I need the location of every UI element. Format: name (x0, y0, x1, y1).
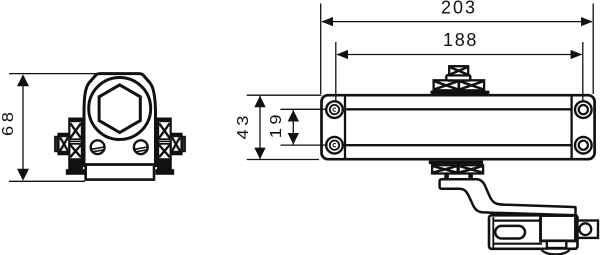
svg-text:19: 19 (267, 111, 284, 138)
bottom valve post left (444, 174, 449, 181)
dim 188 arrow right (571, 50, 583, 59)
dim 43 top extension (247, 94, 322, 96)
dim 68 dimension line (22, 76, 24, 179)
dim 19 arrow down (288, 133, 299, 144)
bottom valve post right (468, 174, 473, 181)
rail inner bottom line (493, 243, 542, 245)
dim 68 top extension line (9, 73, 100, 75)
dim 19 arrow up (288, 110, 299, 122)
screw bottom-left (326, 137, 343, 154)
dim 19 label (267, 111, 284, 138)
left valve cap (55, 137, 59, 152)
top valve X-box left (434, 80, 459, 90)
dim 19 bottom tick inside body (322, 144, 327, 146)
right bracket flange (156, 169, 175, 175)
left cap separator (344, 97, 346, 159)
body inner line lower (345, 144, 572, 146)
dim 68 arrow up (17, 74, 29, 86)
dim 188 label (443, 30, 478, 50)
top valve top X-box (449, 66, 468, 75)
pivot block (541, 216, 576, 241)
dim 43 dimension line (259, 96, 261, 159)
dim 19 top tick inside body (322, 108, 327, 110)
right screw (134, 140, 148, 154)
base plate (86, 165, 154, 180)
right bracket block (158, 119, 171, 170)
pivot dome (542, 249, 570, 255)
dim 203 dimension line (322, 21, 592, 23)
dim 19 dimension line (292, 110, 294, 145)
dim 203 arrow right (581, 17, 593, 26)
screw top-left (326, 101, 343, 118)
right cap separator (570, 97, 572, 159)
bottom valve X-box right (459, 165, 484, 173)
dim 188 left extension (335, 42, 337, 108)
left screw (91, 140, 105, 154)
rail inner top line (493, 220, 542, 222)
closer body bar (322, 95, 595, 159)
rail left inner edge (492, 217, 494, 248)
right valve nub X-box (171, 134, 182, 154)
right plate hole (579, 223, 591, 235)
left valve nub X-box (59, 134, 70, 154)
left bracket block (69, 119, 82, 170)
dim 188 right extension (582, 42, 584, 108)
dim 43 arrow down (254, 148, 265, 160)
closer body dome (84, 74, 156, 166)
screw top-right (575, 101, 592, 118)
body bottom line (83, 163, 157, 166)
bottom valve flange (429, 161, 483, 165)
svg-text:68: 68 (0, 109, 17, 136)
dim 68 label (0, 109, 17, 136)
dim 203 arrow left (321, 17, 333, 26)
left bracket flange (66, 169, 85, 175)
dim 19 bottom extension (281, 144, 327, 146)
body inner line upper (345, 108, 572, 110)
svg-text:43: 43 (234, 112, 251, 139)
mounting rail (489, 215, 578, 249)
arm (440, 179, 576, 215)
dim 43 arrow up (254, 96, 265, 108)
top valve mid bar (446, 75, 470, 80)
dim 188 right extension inside body (582, 96, 584, 109)
spindle hexagon (99, 85, 140, 133)
dim 43 label (234, 112, 251, 139)
dim 203 right extension (592, 4, 594, 95)
dim 43 bottom extension (247, 159, 319, 161)
spindle circle (89, 78, 151, 140)
dim 188 arrow left (336, 50, 348, 59)
dim 19 top extension (281, 108, 327, 110)
right valve cap (181, 137, 185, 152)
rail slot (495, 226, 525, 239)
dim 203 left extension (320, 4, 322, 95)
bottom valve X-box left (432, 165, 458, 173)
top valve flange (431, 91, 490, 95)
dim 188 left extension inside body (335, 96, 337, 109)
dim 188 dimension line (337, 54, 582, 56)
pivot block lower step (547, 241, 566, 248)
screw bottom-right (575, 137, 592, 154)
top valve X-box right (459, 80, 484, 90)
svg-text:188: 188 (443, 30, 478, 50)
svg-text:203: 203 (441, 0, 477, 17)
dim 203 label (441, 0, 477, 17)
dim 68 arrow down (17, 169, 29, 181)
right plate (578, 221, 599, 238)
dim 68 bottom extension line (9, 180, 85, 182)
